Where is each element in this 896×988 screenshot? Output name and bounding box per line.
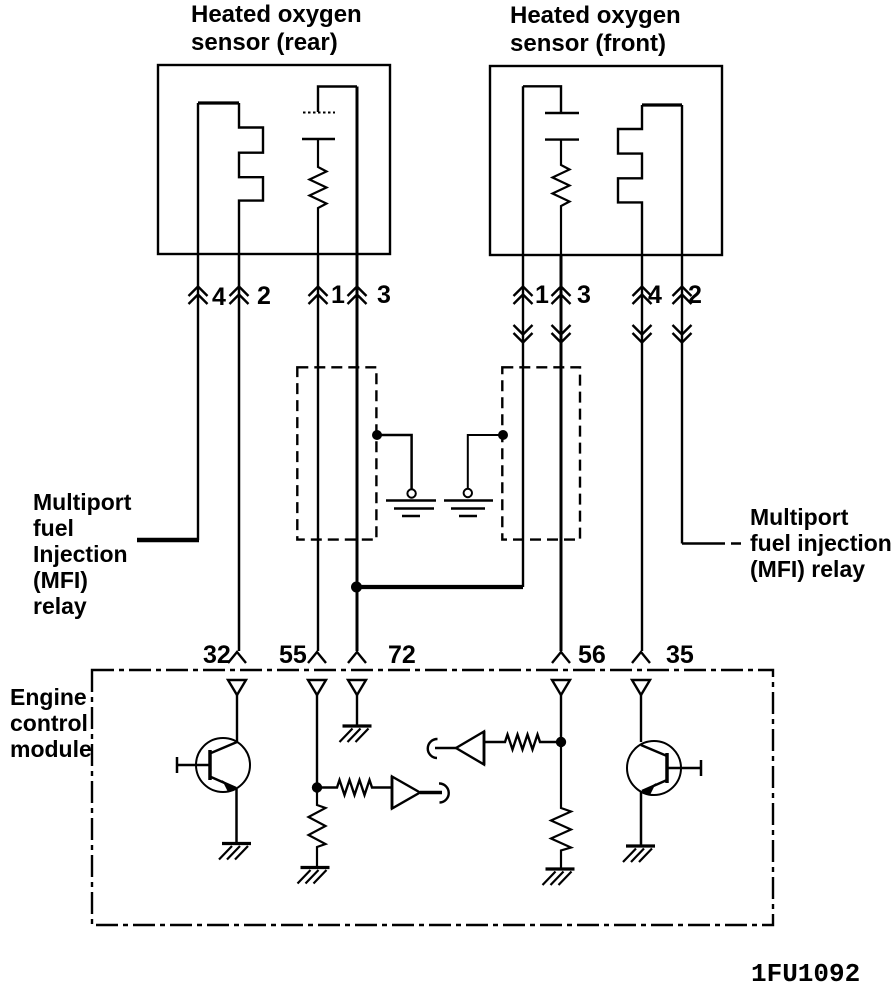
wire: right shield to earth ground	[468, 435, 503, 489]
resistor R2 (vertical, pin 55 to ground)	[309, 792, 326, 866]
resistor R3 (horizontal, pin 56 to buffer)	[485, 735, 561, 750]
transistor Q2 base bar	[665, 753, 669, 783]
buffer A2 triangle	[456, 732, 484, 765]
sensor cell internal resistor (rear)	[310, 139, 327, 254]
svg-text:(MFI) relay: (MFI) relay	[750, 556, 865, 582]
ECM pin numbers	[203, 641, 694, 669]
svg-text:Injection: Injection	[33, 541, 128, 567]
svg-text:sensor (rear): sensor (rear)	[191, 29, 338, 56]
rear sensor box	[158, 65, 390, 254]
sensor cell plates (rear)	[303, 112, 335, 114]
transistor Q2 emitter with arrow	[642, 780, 667, 791]
label: Heated oxygen sensor (front)	[510, 2, 681, 57]
pin 55 male caret	[308, 652, 326, 663]
down chevrons wire 561	[552, 325, 571, 343]
transistor Q1 base bar	[208, 750, 212, 780]
transistor Q2 body	[627, 741, 681, 795]
hook (output A1)	[439, 783, 449, 802]
pin 56 female socket	[552, 680, 570, 695]
shield ground junction dot (right)	[498, 430, 508, 440]
buffer A2 output with hook	[435, 747, 456, 749]
svg-text:35: 35	[666, 641, 694, 669]
wire: Q2 emitter to ground	[640, 792, 643, 846]
pin 55 female socket	[308, 680, 326, 695]
buffer A2 base bar	[483, 731, 486, 765]
earth ground (left): circle and bars	[407, 489, 415, 497]
connector chevrons wire 561	[552, 287, 571, 305]
connector chevrons wire 198	[189, 287, 208, 305]
svg-text:3: 3	[577, 281, 591, 309]
pin 35 female socket	[632, 680, 650, 695]
chassis ground G4	[543, 869, 575, 885]
svg-text:56: 56	[578, 641, 606, 669]
wire: pin 55 to junction	[316, 695, 318, 787]
pin 56 male caret	[552, 652, 570, 663]
hook (output A2)	[428, 739, 438, 758]
part number 1FU1092	[751, 959, 860, 988]
shielded cable box (right, dashed)	[502, 367, 580, 539]
connector pin numbers	[212, 281, 702, 311]
transistor Q1 collector	[211, 742, 237, 753]
svg-text:(MFI): (MFI)	[33, 567, 88, 593]
svg-text:Heated oxygen: Heated oxygen	[191, 1, 362, 28]
wire: pin 32 into ECM	[236, 695, 238, 742]
wire: rear sensor pin 2 to ECM pin 32	[238, 254, 241, 651]
wire: front sensor pin 3 to ECM pin 56 (thick)	[560, 255, 563, 651]
svg-text:1FU1092: 1FU1092	[751, 959, 860, 988]
junction dot pin 56	[556, 737, 566, 747]
transistor Q1 emitter with arrow	[211, 777, 236, 788]
heater element (rear sensor, comb shape)	[198, 101, 239, 104]
svg-text:1: 1	[535, 281, 549, 309]
wire: rear sensor pin 4 to MFI relay	[197, 103, 199, 540]
transistor Q2 base lead and tick	[667, 760, 701, 776]
buffer A1 output with hook	[420, 791, 442, 795]
svg-text:sensor (front): sensor (front)	[510, 30, 666, 57]
pin 32 male caret	[228, 652, 246, 663]
svg-text:2: 2	[257, 282, 271, 310]
down chevrons wire 642	[633, 325, 652, 343]
pin 32 female socket	[228, 680, 246, 695]
heater element (front sensor, comb shape)	[642, 103, 682, 106]
pin 72 male caret	[348, 652, 366, 663]
wire: front sensor pin 1 down to ground bus	[522, 86, 524, 587]
buffer A1 triangle	[392, 777, 420, 809]
wire: front sensor pin 4 to ECM pin 35	[641, 255, 643, 651]
wire: rear sensor pin 1 to ECM pin 55	[317, 254, 319, 651]
shield ground junction dot (left)	[372, 430, 382, 440]
label: Multiport fuel injection (MFI) relay (left)	[33, 489, 132, 619]
svg-text:Engine: Engine	[10, 684, 87, 710]
pin 35 male caret	[632, 652, 650, 663]
bus junction dot	[351, 582, 362, 593]
transistor Q1 base lead and tick	[177, 757, 210, 773]
resistor R1 (horizontal)	[317, 780, 392, 795]
resistor R4 (vertical, pin 56 to ground)	[551, 742, 571, 868]
sensor cell top bar (front)	[523, 86, 561, 113]
wire: Q1 emitter to ground	[235, 789, 238, 843]
earth ground (right): circle and bars	[464, 489, 472, 497]
sensor ground bus (thick)	[356, 585, 523, 589]
wire: MFI relay stub (right)	[682, 542, 741, 544]
svg-text:2: 2	[688, 281, 702, 309]
junction dot pin 55	[312, 782, 322, 792]
svg-text:4: 4	[212, 283, 226, 311]
sensor cell plates (front)	[545, 112, 579, 114]
svg-text:55: 55	[279, 641, 307, 669]
svg-text:Heated oxygen: Heated oxygen	[510, 2, 681, 29]
transistor Q2 collector	[641, 745, 667, 756]
connector chevrons wire 682	[673, 287, 692, 305]
chassis ground G3	[340, 726, 372, 742]
svg-text:4: 4	[648, 281, 662, 309]
sensor cell top bar (rear)	[318, 87, 357, 113]
svg-text:relay: relay	[33, 593, 87, 619]
connector chevrons wire 357	[348, 287, 367, 305]
svg-text:Multiport: Multiport	[33, 489, 132, 515]
wire: pin 35 into ECM	[640, 695, 642, 742]
sensor cell internal resistor (front)	[553, 140, 570, 255]
wire: pin 72 to ground	[356, 695, 358, 726]
svg-text:32: 32	[203, 641, 231, 669]
Engine control module box (chain dashed)	[92, 670, 773, 925]
svg-text:module: module	[10, 736, 92, 762]
transistor Q1 body	[196, 738, 250, 792]
down chevrons wire 523	[514, 325, 533, 343]
svg-text:fuel injection: fuel injection	[750, 530, 892, 556]
connector chevrons wire 239	[230, 287, 249, 305]
wire: pin 56 to junction	[560, 695, 562, 742]
label: Heated oxygen sensor (rear)	[191, 1, 362, 56]
wire: left shield to earth ground	[377, 435, 412, 490]
label: Multiport fuel injection (MFI) relay (right)	[750, 504, 892, 582]
buffer A1 base bar	[391, 776, 394, 809]
wire: MFI relay stub (left, thick)	[137, 538, 199, 543]
svg-text:control: control	[10, 710, 88, 736]
connector chevrons wire 523	[514, 287, 533, 305]
connector chevrons wire 642	[633, 287, 652, 305]
svg-text:3: 3	[377, 281, 391, 309]
shielded cable box (left, dashed)	[297, 367, 376, 539]
connector chevrons wire 318	[309, 287, 328, 305]
wire: rear sensor pin 3 to ECM pin 72 (thick)	[356, 87, 359, 652]
svg-text:1: 1	[331, 281, 345, 309]
label: Engine control module	[10, 684, 92, 762]
svg-text:Multiport: Multiport	[750, 504, 849, 530]
down chevrons wire 682	[673, 325, 692, 343]
chassis ground G5	[623, 846, 655, 862]
svg-text:fuel: fuel	[33, 515, 74, 541]
chassis ground G2	[298, 868, 330, 884]
pin 72 female socket	[348, 680, 366, 695]
svg-text:72: 72	[388, 641, 416, 669]
front sensor box	[490, 66, 722, 255]
chassis ground G1	[219, 844, 251, 860]
wire: front sensor pin 2 to MFI relay	[681, 105, 683, 544]
